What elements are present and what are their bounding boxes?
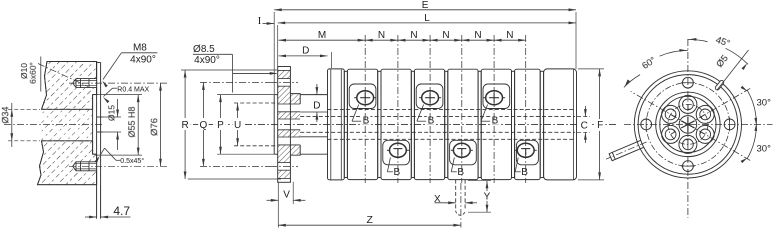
flange hub xyxy=(290,94,300,156)
svg-text:M8: M8 xyxy=(133,42,147,53)
port pitch circle xyxy=(668,104,708,144)
label B top port 5 xyxy=(481,105,488,122)
dim Z xyxy=(277,222,279,228)
radial centerline +30° xyxy=(688,88,750,124)
svg-text:Y: Y xyxy=(484,192,491,203)
dim F xyxy=(578,68,604,70)
wall outline xyxy=(38,62,97,185)
flange bolt hole bottom xyxy=(278,162,291,164)
port 3 xyxy=(662,125,680,143)
module 1 xyxy=(347,69,377,179)
port centerline 5 xyxy=(493,35,495,183)
radial centerline 150° xyxy=(631,91,688,124)
svg-text:B: B xyxy=(521,167,528,178)
port circle + module 5 xyxy=(486,91,503,105)
dims N xyxy=(365,39,398,41)
svg-text:4.7: 4.7 xyxy=(113,204,130,218)
spacer ring 7 xyxy=(540,71,543,177)
port boss top module 5 xyxy=(483,84,510,109)
port circle T module 6 xyxy=(517,143,534,157)
label B top port 1 xyxy=(352,105,359,122)
svg-text:R0.4 MAX: R0.4 MAX xyxy=(117,86,149,93)
bolt hole 4 xyxy=(724,119,735,130)
shaft neck lines xyxy=(300,94,327,96)
port 6 xyxy=(696,105,714,123)
port 1 xyxy=(679,95,697,113)
dim 30° arc bottom xyxy=(747,124,756,158)
bolt circle centerline xyxy=(646,83,729,166)
svg-text:X: X xyxy=(434,194,441,205)
port circle + module 1 xyxy=(357,91,374,105)
svg-text:Ø76: Ø76 xyxy=(149,118,160,136)
spacer ring 4 xyxy=(445,71,448,177)
spacer ring 5 xyxy=(478,71,481,177)
center bore hatch bands xyxy=(278,103,301,105)
svg-text:Ø34: Ø34 xyxy=(0,106,10,123)
dim Ø55 H8 xyxy=(97,94,142,96)
right view vertical centerline xyxy=(687,39,689,218)
port circle + module 3 xyxy=(422,91,439,105)
spacer ring 6 xyxy=(512,71,515,177)
port circle T module 4 xyxy=(453,143,470,157)
Ø10 hole diagonal centerline xyxy=(38,64,88,87)
label B top port 3 xyxy=(417,105,424,122)
label R0.4 MAX xyxy=(117,86,149,93)
center port with center mark xyxy=(679,116,697,134)
svg-text:D: D xyxy=(313,100,320,111)
dim 30° arc top xyxy=(747,90,756,124)
drain plug centerline xyxy=(606,142,647,159)
bolt hole 3 xyxy=(641,119,652,130)
svg-text:6x60°: 6x60° xyxy=(28,62,38,84)
port centerline 2 xyxy=(397,35,399,183)
svg-text:B: B xyxy=(363,116,370,127)
port circle T module 2 xyxy=(390,143,407,157)
bore Ø34 hidden lines xyxy=(42,108,93,110)
dim E xyxy=(273,12,275,94)
spacer ring 3 xyxy=(411,71,414,177)
flange bolt hole top xyxy=(278,78,291,80)
drain centerline xyxy=(460,183,462,228)
label B bottom port 6 xyxy=(515,158,518,172)
dim D horizontal xyxy=(279,55,328,57)
dim 4.7 xyxy=(96,185,98,219)
svg-text:L: L xyxy=(424,13,430,24)
svg-text:B: B xyxy=(428,116,435,127)
svg-text:4x90°: 4x90° xyxy=(194,55,220,66)
mounting plate 4.7 xyxy=(97,62,101,64)
svg-text:M: M xyxy=(318,30,326,41)
port boss bottom module 6 xyxy=(516,140,538,165)
svg-text:Z: Z xyxy=(366,214,373,226)
svg-text:N: N xyxy=(506,30,513,41)
port 5 xyxy=(696,125,714,143)
dim M xyxy=(279,39,366,41)
svg-text:30°: 30° xyxy=(757,98,772,109)
flange bore hidden lines xyxy=(234,102,278,104)
port boss bottom module 2 xyxy=(383,140,410,165)
module 3 xyxy=(414,69,444,179)
body ring 1 xyxy=(328,69,345,180)
svg-text:B: B xyxy=(393,167,400,178)
left view axis centerline xyxy=(4,124,103,126)
Ø5 leader xyxy=(717,50,749,90)
outer flange circle xyxy=(634,71,741,178)
label Ø10 6x60° xyxy=(19,63,29,79)
wall hatch middle hidden band xyxy=(42,109,93,141)
port boss top module 1 xyxy=(349,84,376,109)
module 2 xyxy=(381,69,411,179)
label B bottom port 4 xyxy=(451,158,454,172)
svg-text:Ø8.5: Ø8.5 xyxy=(193,44,215,55)
dim I xyxy=(263,23,275,25)
dim Ø15 xyxy=(101,116,121,118)
M8 tapped hole top xyxy=(73,79,96,88)
port centerline 1 xyxy=(364,35,366,183)
port boss top module 3 xyxy=(416,84,443,109)
label B bottom port 2 xyxy=(387,158,390,172)
recess Ø55 face xyxy=(92,95,94,141)
svg-text:Ø55 H8: Ø55 H8 xyxy=(127,106,137,137)
dim D small vertical xyxy=(313,94,321,96)
svg-text:4x90°: 4x90° xyxy=(130,54,156,65)
dims R Q P U xyxy=(181,69,277,71)
port 4 xyxy=(679,135,697,153)
middle view axis xyxy=(180,123,618,125)
svg-text:P: P xyxy=(217,120,224,131)
svg-text:N: N xyxy=(410,30,417,41)
svg-text:Q: Q xyxy=(200,120,208,131)
svg-text:B: B xyxy=(492,116,499,127)
svg-text:B: B xyxy=(457,167,464,178)
flange body xyxy=(278,67,291,183)
svg-text:30°: 30° xyxy=(757,144,772,155)
drain hole hidden below port 4 xyxy=(455,180,457,211)
radial centerline -30° xyxy=(688,124,750,160)
svg-text:E: E xyxy=(422,0,429,11)
label Ø8.5 4x90° xyxy=(193,44,215,55)
svg-text:Ø15: Ø15 xyxy=(106,105,116,121)
port centerline 6 xyxy=(525,35,527,183)
svg-text:C: C xyxy=(581,121,588,132)
svg-text:V: V xyxy=(283,190,290,201)
Ø5 pin slot at 45° xyxy=(714,80,724,91)
svg-text:F: F xyxy=(597,120,603,131)
module 4 xyxy=(448,69,478,179)
dim C xyxy=(577,116,590,118)
bolt hole 1 xyxy=(683,77,694,88)
dim X xyxy=(435,202,456,204)
label 0.5x45° xyxy=(120,157,144,165)
body circle xyxy=(638,75,738,175)
dim Ø76 xyxy=(160,83,162,166)
dim 60° arc xyxy=(660,50,688,56)
svg-text:0.5x45°: 0.5x45° xyxy=(120,157,144,165)
port centerline 4 xyxy=(461,35,463,183)
port centerline 3 xyxy=(429,35,431,183)
svg-text:R: R xyxy=(181,120,188,131)
module 6 xyxy=(515,69,541,179)
dim 45° arc xyxy=(688,39,708,41)
svg-text:U: U xyxy=(234,120,241,131)
wall hatch top xyxy=(42,62,97,110)
flange spigot xyxy=(273,95,275,155)
svg-text:D: D xyxy=(302,46,309,57)
M8 tapped hole bottom xyxy=(73,162,96,171)
bolt hole 2 xyxy=(683,161,694,172)
end cap xyxy=(544,69,577,180)
dim L xyxy=(277,25,279,66)
port 2 xyxy=(662,105,680,123)
cluster circles xyxy=(656,92,720,156)
drain plug lower left xyxy=(609,140,643,160)
svg-text:N: N xyxy=(442,30,449,41)
svg-text:N: N xyxy=(378,30,385,41)
spacer ring 2 xyxy=(378,71,381,177)
svg-text:I: I xyxy=(258,16,262,27)
port boss bottom module 4 xyxy=(450,140,477,165)
right view horizontal centerline xyxy=(624,123,773,125)
dim V xyxy=(277,182,279,222)
wall hatch bottom xyxy=(38,141,97,185)
svg-text:N: N xyxy=(474,30,481,41)
module 5 xyxy=(481,69,511,179)
dim Y xyxy=(468,180,491,182)
label M8 4x90° xyxy=(133,42,147,53)
plate bore Ø15 xyxy=(97,116,101,118)
dim Ø34 xyxy=(8,108,40,110)
spacer ring 1 xyxy=(344,71,347,177)
body internal bores hidden xyxy=(328,109,576,111)
